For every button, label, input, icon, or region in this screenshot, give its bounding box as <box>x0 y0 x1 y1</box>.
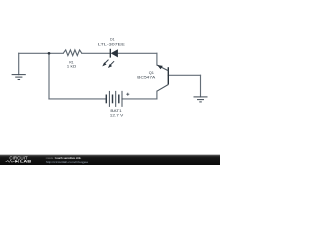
wire left ground lead <box>18 53 20 74</box>
wire bottom left to battery <box>49 98 106 100</box>
resistor R1 <box>63 50 82 56</box>
wire base corner down <box>200 75 202 97</box>
LED D1 cathode bar <box>109 49 111 58</box>
LED D1 light arrow 2 <box>108 61 114 68</box>
svg-text:http://circuitlab.com/c/loqgee: http://circuitlab.com/c/loqgee <box>46 160 89 164</box>
battery BAT1 plus sign <box>126 93 129 96</box>
svg-text:1 kΩ: 1 kΩ <box>67 64 76 69</box>
LED D1 light arrow 1 <box>102 60 108 67</box>
transistor Q1 emitter diagonal <box>157 65 168 71</box>
node junction dot <box>48 52 51 55</box>
svg-text:12.7 V: 12.7 V <box>110 113 124 118</box>
CircuitLab logo diode arrow <box>15 160 18 163</box>
LED D1 triangle <box>111 49 118 57</box>
ground left <box>12 75 26 80</box>
wire resistor to LED <box>82 52 111 54</box>
svg-text:BC547A: BC547A <box>137 75 155 80</box>
battery BAT1 <box>106 91 122 107</box>
wire corner up to Q1 collector <box>156 91 158 99</box>
transistor Q1 emitter arrow <box>157 65 163 69</box>
transistor Q1 collector diagonal <box>157 85 168 92</box>
wire LED to corner <box>118 52 157 54</box>
transistor Q1 bar <box>167 67 169 84</box>
wire top left: ground to resistor <box>19 52 64 54</box>
wire junction down left branch <box>48 53 50 99</box>
svg-text:LTL-307EE: LTL-307EE <box>98 42 125 47</box>
CircuitLab logo wire zigzag <box>6 160 15 162</box>
svg-text:LAB: LAB <box>20 160 32 164</box>
ground right <box>194 97 208 102</box>
wire Q1 base to right ground <box>168 74 200 76</box>
wire battery to corner right <box>122 98 157 100</box>
wire corner down to Q1 emitter <box>156 53 158 65</box>
